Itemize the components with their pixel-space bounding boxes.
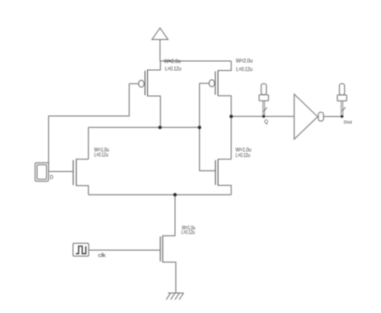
- svg-text:Q: Q: [264, 119, 268, 125]
- svg-text:W=2.0u: W=2.0u: [236, 58, 253, 64]
- svg-text:L=0.12u: L=0.12u: [236, 153, 251, 159]
- svg-text:D: D: [50, 175, 54, 181]
- svg-text:L=0.12u: L=0.12u: [94, 153, 108, 159]
- svg-text:clk: clk: [98, 253, 106, 259]
- svg-text:L=0.12u: L=0.12u: [181, 230, 194, 236]
- svg-text:Dout: Dout: [344, 120, 353, 125]
- svg-text:L=0.12u: L=0.12u: [165, 66, 181, 72]
- svg-text:L=0.12u: L=0.12u: [236, 67, 252, 73]
- svg-text:W=2.0u: W=2.0u: [164, 59, 181, 65]
